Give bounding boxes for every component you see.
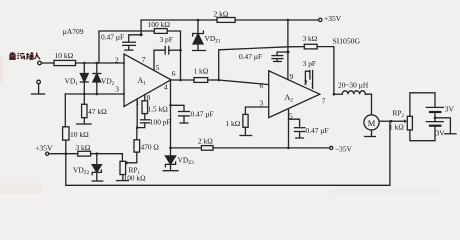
wire: R10k to A1 pin2 (76, 62, 125, 64)
resistor R 2k top (217, 18, 235, 23)
resistor R 3k A2 feedback (304, 44, 317, 49)
potentiometer RP1 (117, 161, 129, 180)
svg-text:1 kΩ: 1 kΩ (226, 119, 241, 128)
svg-text:6: 6 (172, 69, 176, 78)
resistor R 470 vertical (134, 128, 140, 153)
svg-text:470 Ω: 470 Ω (141, 143, 160, 152)
svg-text:3V: 3V (445, 105, 455, 114)
resistor R 1k at A2 pin3 (243, 114, 248, 127)
resistor R 10k input (54, 60, 76, 65)
svg-text:4: 4 (164, 83, 168, 92)
resistor R 100k feedback (154, 29, 167, 34)
svg-text:3 kΩ: 3 kΩ (303, 34, 318, 43)
wire: 3k to RP1 corner (91, 154, 123, 162)
svg-text:0.47 µF: 0.47 µF (101, 33, 124, 42)
svg-text:SI1050G: SI1050G (333, 37, 361, 46)
resistor R 1k output (194, 78, 208, 83)
wire: rail corner down to bypass node (140, 20, 142, 35)
svg-text:1 kΩ: 1 kΩ (194, 67, 209, 76)
resistor R 10k vertical (63, 127, 69, 140)
svg-text:10 kΩ: 10 kΩ (70, 130, 89, 139)
svg-text:2 kΩ: 2 kΩ (198, 137, 213, 146)
diode VD2 (93, 63, 101, 94)
svg-text:8: 8 (147, 93, 151, 102)
capacitor C 0.47uF at A1 top (supply bypass) (123, 35, 141, 50)
svg-text:100 pF: 100 pF (150, 118, 171, 127)
resistor R 1.5k at pin8 (142, 95, 148, 114)
svg-text:2 kΩ: 2 kΩ (214, 10, 229, 19)
inductor 20-30uH (334, 91, 372, 115)
wire: A1 pin3 run (65, 93, 124, 95)
resistor R 47k vertical (77, 94, 91, 124)
svg-text:3: 3 (115, 85, 119, 94)
capacitor C 0.47uF at A2 pin5 (289, 119, 305, 138)
svg-text:5: 5 (289, 112, 293, 121)
motor M (364, 115, 391, 137)
svg-text:2: 2 (115, 56, 119, 65)
resistor R 3k lower left (78, 151, 91, 156)
svg-text:6: 6 (260, 81, 264, 90)
wire: A1 output row (171, 79, 194, 81)
svg-text:0.47 µF: 0.47 µF (306, 126, 329, 135)
svg-text:−35V: −35V (335, 145, 353, 154)
svg-text:1: 1 (136, 98, 140, 107)
pin numbers A2 (260, 72, 326, 121)
scan artifacts (0, 56, 440, 194)
svg-text:3 pF: 3 pF (303, 59, 316, 68)
battery 3V upper cell (426, 107, 443, 121)
diode VD1 (80, 63, 88, 94)
terminal -35V circle (330, 146, 333, 149)
pin numbers A1 (115, 55, 176, 107)
wire: 1k to A2 pin6 (208, 79, 219, 81)
node: top rail wire (141, 19, 217, 21)
wire: A2 pin5 riser down (288, 109, 290, 148)
capacitor C 0.47uF at pin4 (171, 105, 190, 123)
glyph zhi (9, 52, 16, 59)
svg-text:0.47 µF: 0.47 µF (239, 52, 262, 61)
zener diode VDZ1 (193, 20, 206, 51)
svg-text:3 kΩ: 3 kΩ (76, 143, 91, 152)
svg-text:47 kΩ: 47 kΩ (88, 107, 107, 116)
wire: A1 pin1 lead (136, 99, 138, 128)
svg-text:7: 7 (142, 55, 146, 64)
zener diode VDZ2 (92, 154, 103, 181)
wire: input to R10k (41, 62, 54, 64)
input terminal upper (38, 61, 42, 65)
glyph liu (17, 53, 25, 59)
svg-text:0.47 µF: 0.47 µF (191, 110, 214, 119)
wire: 100k to output riser (167, 31, 180, 80)
capacitor C 3pF at A2 pins 2-1 (305, 71, 312, 89)
wire: left column down + bottom rail + right riser (66, 121, 390, 185)
svg-text:+35V: +35V (35, 144, 53, 153)
wire: A2 pin3 to 1k (245, 107, 268, 114)
svg-text:5: 5 (156, 63, 160, 72)
wire: 3k to A2 output (317, 47, 334, 95)
wire: wiper arrow to RP2 (391, 120, 404, 122)
glyph ru (34, 53, 40, 60)
wire: A1 pin4 riser down (170, 81, 172, 148)
svg-text:20~30 µH: 20~30 µH (338, 81, 369, 90)
wire: 10k down to +35V row (65, 140, 67, 154)
svg-text:1: 1 (310, 81, 314, 90)
svg-text:3 pF: 3 pF (160, 35, 173, 44)
svg-text:µA709: µA709 (63, 27, 84, 36)
svg-text:7: 7 (322, 97, 326, 106)
svg-text:9: 9 (290, 72, 294, 81)
op-amp A1 triangle (124, 54, 171, 107)
+35V lower-left terminal (46, 152, 49, 155)
svg-text:+35V: +35V (324, 14, 342, 23)
svg-text:10 kΩ: 10 kΩ (55, 51, 74, 60)
wire: node X riser and run to 3k (219, 47, 305, 80)
svg-text:1 kΩ: 1 kΩ (389, 123, 404, 132)
battery 3V lower cell (426, 122, 443, 126)
op-amp A2 triangle (269, 71, 320, 118)
capacitor C 3pF at A1 (154, 46, 181, 70)
input terminal lower with bar (32, 80, 45, 94)
wire: pin3 corner down to 10k (64, 94, 66, 127)
svg-text:3V: 3V (436, 129, 446, 138)
wire: -35V rail (171, 147, 202, 149)
capacitor C 100pF (137, 114, 150, 128)
svg-text:100 kΩ: 100 kΩ (148, 20, 171, 29)
wire: 470 down to RP1 wiper arrow (127, 152, 137, 163)
svg-text:100 kΩ: 100 kΩ (124, 174, 147, 183)
wire: battery mid tap to bar (435, 118, 456, 134)
zener diode VDZ3 (163, 148, 178, 171)
terminal +35V top circle (319, 18, 322, 21)
svg-text:2: 2 (304, 78, 308, 87)
capacitor C 0.47uF at A2 pin9 (272, 52, 288, 62)
svg-text:M: M (368, 118, 376, 128)
svg-text:3: 3 (260, 99, 264, 108)
svg-text:1.5 kΩ: 1.5 kΩ (148, 105, 169, 114)
glyph shu (26, 53, 33, 59)
wire: feedback pin2 riser and top run (99, 31, 154, 63)
wire: A2 supply riser pin9 (287, 20, 289, 80)
label DC input CJK glyph strokes (9, 52, 40, 59)
potentiometer RP2 (407, 93, 435, 141)
resistor R 2k bottom (201, 146, 213, 151)
